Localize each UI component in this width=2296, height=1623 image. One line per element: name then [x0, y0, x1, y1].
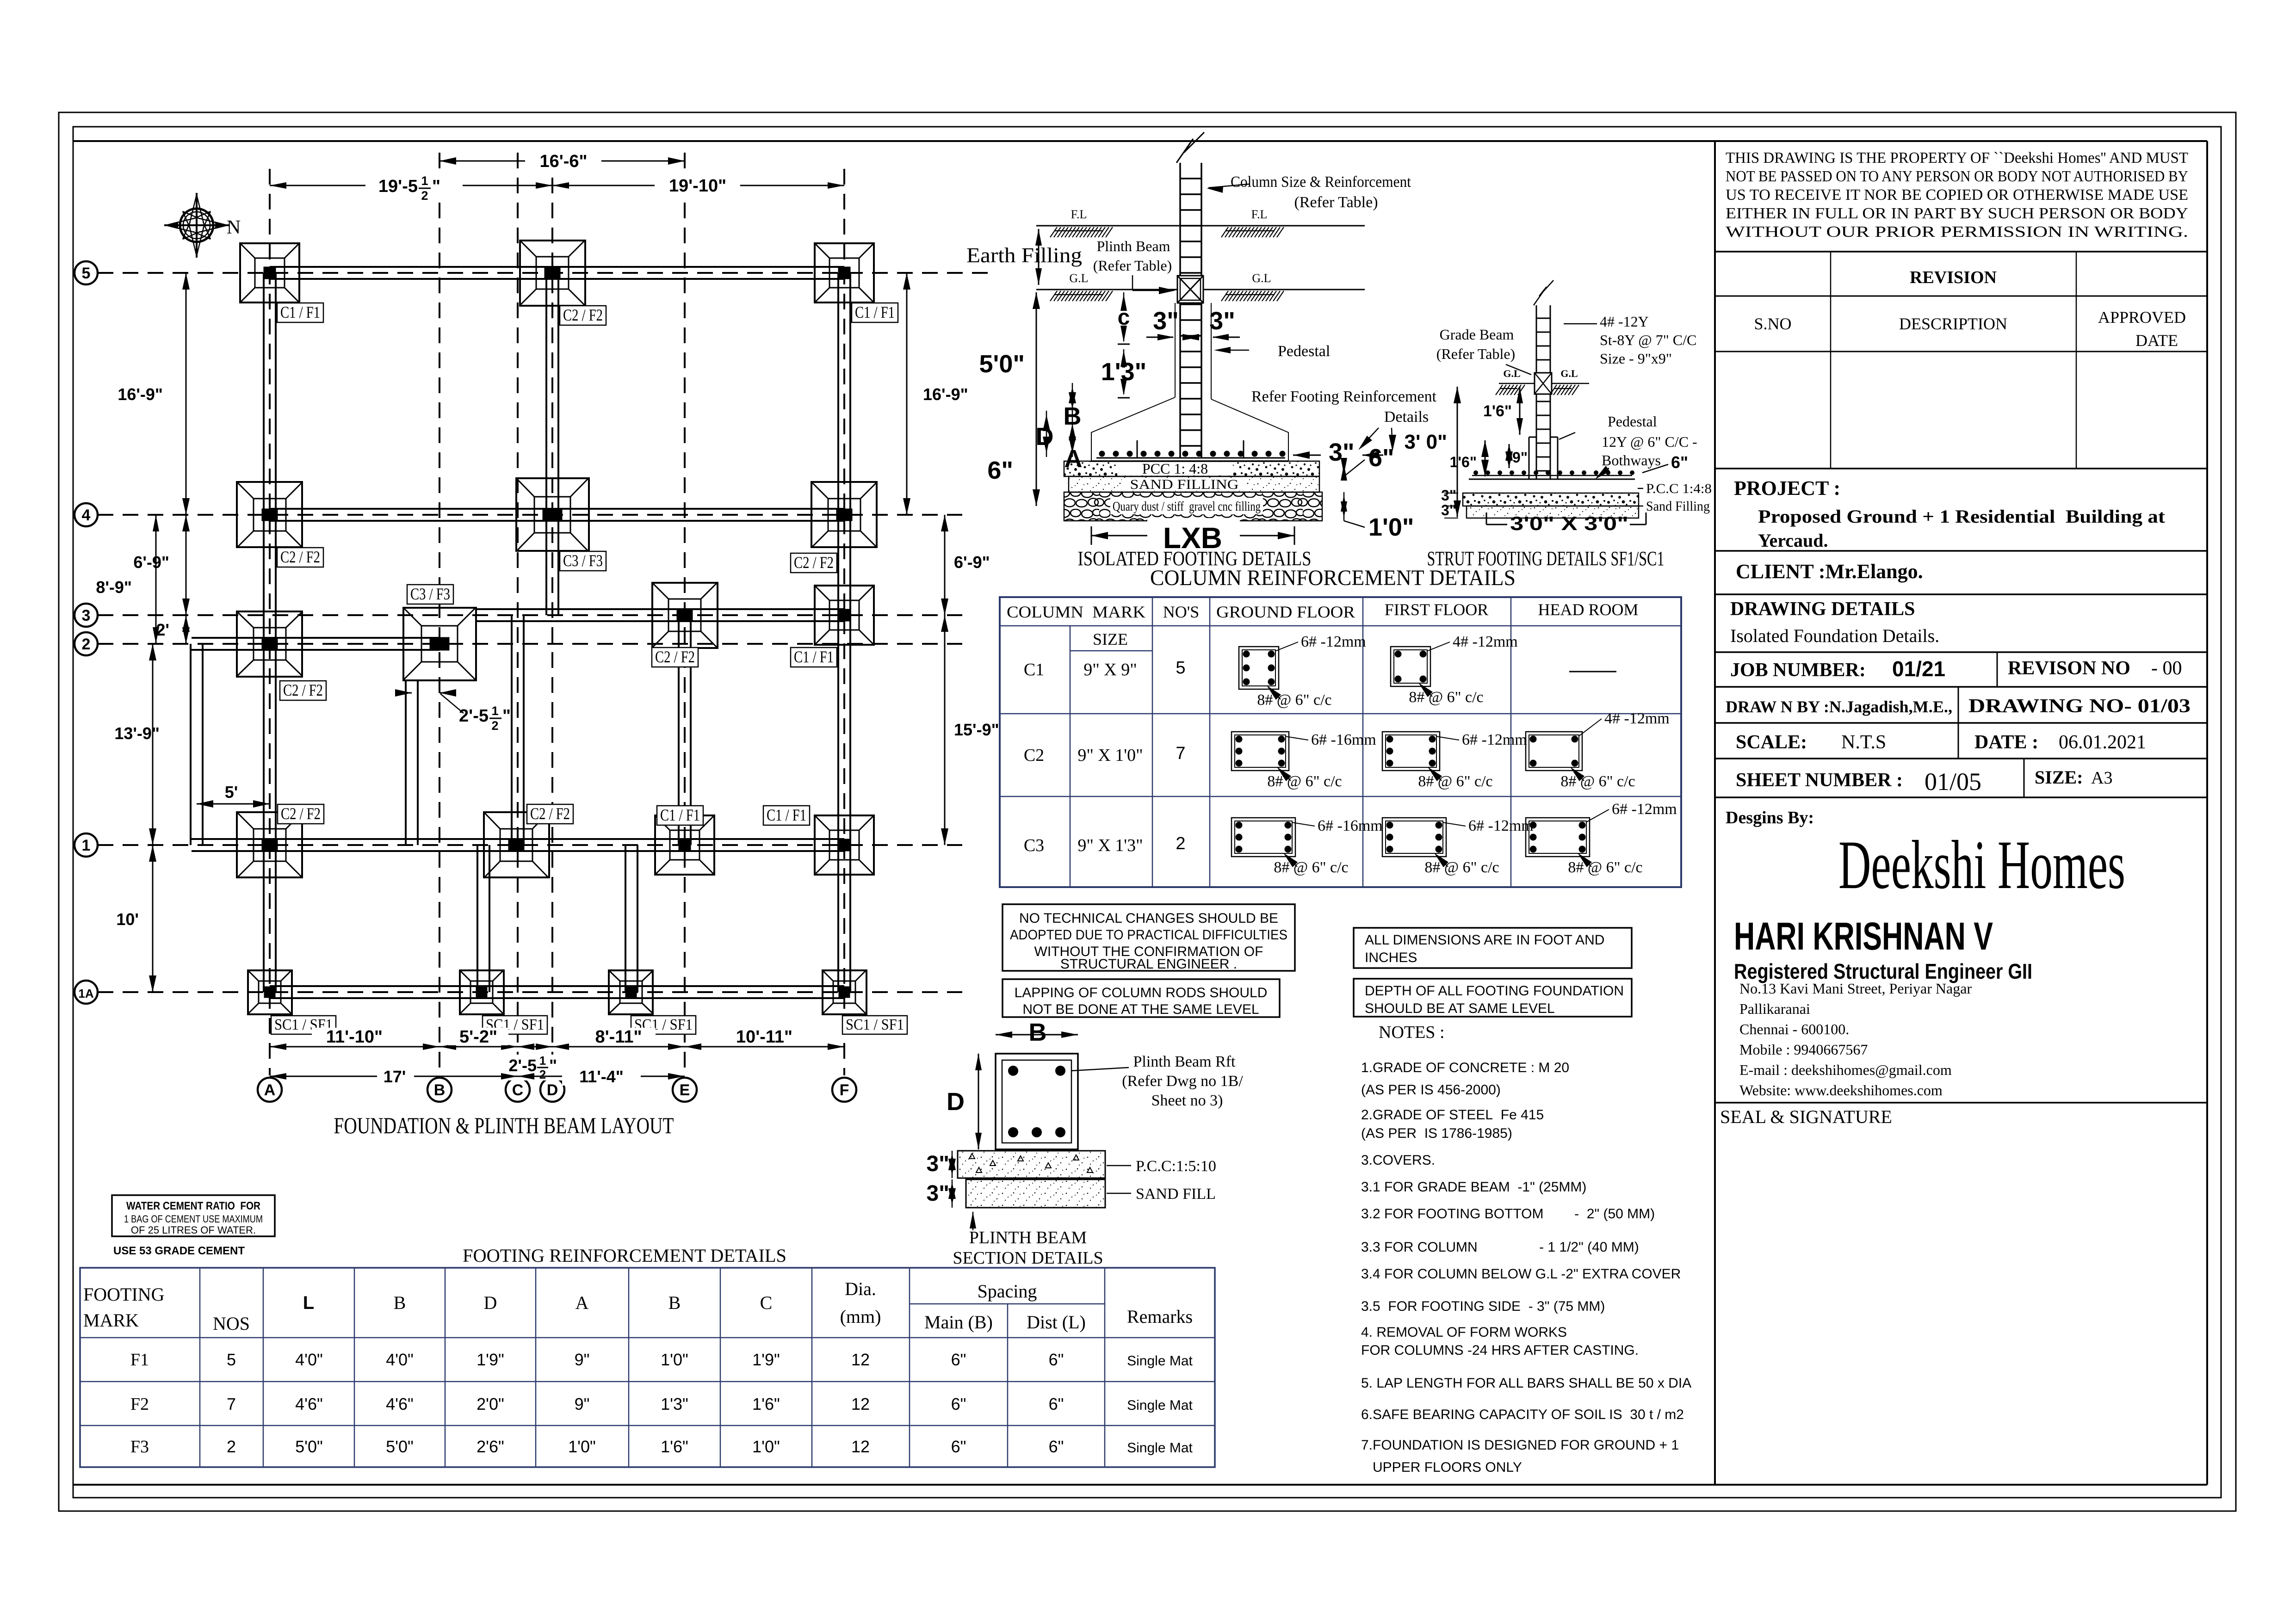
svg-text:Desgins By:: Desgins By: — [1726, 808, 1814, 827]
svg-text:11'-4": 11'-4" — [579, 1067, 624, 1086]
label C2 / F2 — [278, 804, 324, 824]
soil hatch below F.L left — [1050, 227, 1113, 237]
svg-text:19'-10": 19'-10" — [669, 176, 726, 196]
svg-text:SC1 / SF1: SC1 / SF1 — [846, 1016, 904, 1033]
svg-text:STRUT FOOTING DETAILS SF1/SC1: STRUT FOOTING DETAILS SF1/SC1 — [1427, 547, 1665, 570]
svg-text:Website: www.deekshihomes.com: Website: www.deekshihomes.com — [1739, 1082, 1943, 1098]
svg-text:1'0": 1'0" — [752, 1437, 780, 1456]
dim 2'-5 1/2" leader near B2 — [396, 692, 412, 694]
left dim 2' — [186, 615, 187, 644]
plinth beam section: beam rect — [996, 1054, 1078, 1149]
svg-text:UPPER FLOORS ONLY: UPPER FLOORS ONLY — [1361, 1460, 1522, 1475]
svg-text:4'0": 4'0" — [295, 1350, 323, 1369]
svg-text:OF 25 LITRES OF WATER.: OF 25 LITRES OF WATER. — [131, 1224, 256, 1236]
svg-text:6'-9": 6'-9" — [133, 553, 169, 572]
svg-text:REVISON NO: REVISON NO — [2008, 658, 2130, 679]
svg-text:3": 3" — [1209, 307, 1235, 335]
footing C2/F2 at A2 — [237, 611, 303, 677]
footing slab rebar mat — [1091, 460, 1288, 462]
svg-text:10'-11": 10'-11" — [736, 1027, 792, 1047]
svg-text:6'-9": 6'-9" — [954, 553, 990, 572]
LXB dimension — [1091, 535, 1294, 537]
svg-text:2: 2 — [227, 1437, 236, 1456]
svg-text:2'6": 2'6" — [477, 1437, 504, 1456]
svg-text:2: 2 — [491, 719, 498, 733]
grid line 3 (dashed) — [98, 614, 962, 616]
svg-text:DRAW N BY :N.Jagadish,M.E.,: DRAW N BY :N.Jagadish,M.E., — [1726, 697, 1952, 716]
svg-text:Pedestal: Pedestal — [1278, 343, 1330, 360]
soil hatch below G.L right — [1221, 291, 1284, 301]
svg-text:B: B — [434, 1081, 446, 1099]
grid bubble D — [540, 1078, 564, 1102]
svg-text:(Refer Table): (Refer Table) — [1436, 346, 1515, 362]
svg-text:6": 6" — [1049, 1437, 1064, 1456]
svg-text:Pedestal: Pedestal — [1608, 413, 1657, 430]
svg-text:A: A — [1064, 445, 1083, 473]
grid bubble 3 — [74, 604, 98, 627]
svg-text:12: 12 — [851, 1395, 870, 1413]
pedestal 3 inch offset dims — [1146, 337, 1173, 338]
svg-text:(AS PER IS 456-2000): (AS PER IS 456-2000) — [1361, 1082, 1501, 1098]
svg-text:8# @ 6" c/c: 8# @ 6" c/c — [1267, 773, 1342, 790]
strut bottom dim 3'0 x 3'0 — [1486, 524, 1507, 525]
svg-text:1'6": 1'6" — [661, 1437, 688, 1456]
plinth beam column D — [545, 273, 547, 615]
svg-text:6": 6" — [1671, 453, 1688, 472]
plinth beam along row 1 — [192, 838, 844, 840]
grid line B (dashed) — [439, 153, 440, 1075]
svg-text:SAND FILLING: SAND FILLING — [1130, 477, 1239, 492]
gravel filling layer — [1064, 492, 1322, 521]
svg-text:6# -12mm: 6# -12mm — [1612, 801, 1677, 818]
strut right 6" dim — [1642, 464, 1668, 473]
content frame right line — [2206, 141, 2208, 1485]
svg-text:SEAL & SIGNATURE: SEAL & SIGNATURE — [1720, 1106, 1892, 1127]
svg-text:USE 53 GRADE CEMENT: USE 53 GRADE CEMENT — [113, 1245, 245, 1257]
svg-text:Size - 9"x9": Size - 9"x9" — [1600, 350, 1672, 367]
svg-text:1.GRADE OF CONCRETE : M 20: 1.GRADE OF CONCRETE : M 20 — [1361, 1060, 1569, 1075]
label C1 / F1 — [657, 806, 703, 825]
svg-text:06.01.2021: 06.01.2021 — [2059, 732, 2146, 753]
label Plinth Beam Rft — [1071, 1068, 1129, 1071]
svg-text:3.COVERS.: 3.COVERS. — [1361, 1153, 1435, 1168]
strut X-box at G.L — [1535, 373, 1552, 394]
footing haunch slopes — [1091, 397, 1288, 461]
svg-text:1 BAG OF CEMENT USE MAXIMUM: 1 BAG OF CEMENT USE MAXIMUM — [124, 1213, 263, 1225]
right cover dim 3 inch — [1293, 455, 1321, 456]
svg-text:DESCRIPTION: DESCRIPTION — [1899, 315, 2007, 333]
notice box: lapping of column rods — [1003, 979, 1280, 1017]
svg-text:FOR COLUMNS -24 HRS AFTER CAST: FOR COLUMNS -24 HRS AFTER CASTING. — [1361, 1343, 1639, 1358]
svg-text:6# -12mm: 6# -12mm — [1301, 633, 1366, 650]
svg-text:7: 7 — [1176, 744, 1185, 763]
grid line 1 (dashed) — [98, 844, 962, 846]
grid bubble 5 — [74, 261, 98, 284]
svg-text:4# -12mm: 4# -12mm — [1453, 633, 1518, 650]
svg-text:C2 / F2: C2 / F2 — [794, 553, 834, 572]
svg-text:HARI KRISHNAN V: HARI KRISHNAN V — [1734, 914, 1993, 958]
svg-text:9" X 1'3": 9" X 1'3" — [1077, 836, 1143, 855]
svg-text:B: B — [1064, 402, 1082, 430]
grid line 2 (dashed) — [98, 643, 962, 645]
svg-text:NO'S: NO'S — [1163, 603, 1200, 621]
rebar section C3 ground floor — [1232, 818, 1295, 857]
svg-text:Mobile : 9940667567: Mobile : 9940667567 — [1739, 1041, 1868, 1058]
svg-text:8# @ 6" c/c: 8# @ 6" c/c — [1418, 773, 1492, 790]
footing C2/F2 at D5 — [520, 241, 585, 306]
svg-text:4'6": 4'6" — [295, 1395, 323, 1413]
svg-text:C2 / F2: C2 / F2 — [530, 804, 570, 823]
svg-text:F2: F2 — [130, 1395, 149, 1414]
svg-text:1'6": 1'6" — [1483, 402, 1512, 420]
svg-text:5: 5 — [82, 265, 91, 282]
right dim 1'0" — [1343, 492, 1345, 521]
svg-text:6# -16mm: 6# -16mm — [1318, 817, 1383, 834]
svg-text:SHOULD BE AT SAME LEVEL: SHOULD BE AT SAME LEVEL — [1365, 1001, 1555, 1016]
rebar section C3 head room — [1526, 818, 1590, 857]
svg-text:St-8Y @ 7" C/C: St-8Y @ 7" C/C — [1600, 332, 1696, 348]
svg-text:C: C — [512, 1081, 524, 1099]
svg-text:C1 / F1: C1 / F1 — [767, 806, 806, 824]
right dim 6" — [1343, 461, 1345, 476]
svg-text:SCALE:: SCALE: — [1736, 732, 1807, 753]
grid bubble 1A — [74, 981, 98, 1004]
svg-text:8'-11": 8'-11" — [595, 1027, 642, 1047]
svg-text:01/21: 01/21 — [1892, 657, 1945, 681]
grid bubble B — [427, 1078, 452, 1102]
svg-text:16'-9": 16'-9" — [118, 385, 163, 404]
footing SC1/SF1 at A1A — [248, 970, 292, 1014]
svg-text:WATER CEMENT RATIO FOR: WATER CEMENT RATIO FOR — [126, 1200, 260, 1212]
svg-text:Quary dust / stiff gravel cnc: Quary dust / stiff gravel cnc filling — [1113, 500, 1261, 514]
svg-text:C3: C3 — [1024, 836, 1044, 855]
svg-text:Sand Filling: Sand Filling — [1646, 499, 1710, 514]
plinth beam column C — [511, 615, 513, 845]
svg-text:HEAD ROOM: HEAD ROOM — [1538, 600, 1638, 619]
leader: Column Size & Reinforcement — [1208, 184, 1249, 188]
bottom dim 5'-2" — [439, 1046, 518, 1048]
svg-text:2: 2 — [421, 189, 428, 203]
strut PCC / Sand labels — [1638, 488, 1643, 489]
svg-text:APPROVED: APPROVED — [2098, 308, 2186, 327]
label SC1 / SF1 — [483, 1016, 547, 1034]
svg-text:B: B — [1029, 1018, 1047, 1046]
leader grade beam — [1506, 364, 1531, 375]
soil hatch below F.L right — [1221, 227, 1284, 237]
svg-text:C1 / F1: C1 / F1 — [280, 303, 320, 321]
svg-text:Pallikaranai: Pallikaranai — [1739, 1000, 1810, 1017]
grid bubble 1 — [74, 833, 98, 857]
svg-text:COLUMN MARK: COLUMN MARK — [1007, 603, 1145, 621]
svg-text:D: D — [547, 1081, 558, 1099]
label C2 / F2 — [652, 648, 698, 667]
footing reinforcement table frame — [80, 1268, 1215, 1467]
strut dim 3'0" — [1457, 387, 1458, 517]
content frame top line — [73, 140, 2207, 142]
svg-text:DATE: DATE — [2135, 331, 2178, 350]
pedestal outline — [1175, 303, 1211, 399]
svg-text:(mm): (mm) — [840, 1306, 881, 1327]
svg-text:6": 6" — [951, 1437, 966, 1456]
svg-text:Column Size & Reinforcement: Column Size & Reinforcement — [1231, 173, 1411, 191]
strut pedestal outline — [1529, 437, 1558, 479]
isolated footing: column break symbol — [1176, 132, 1204, 163]
label SC1 / SF1 — [631, 1016, 696, 1034]
plinth beam along row 4 — [270, 508, 844, 510]
svg-text:C2 / F2: C2 / F2 — [563, 306, 603, 324]
grid line 5 (dashed) — [98, 272, 990, 274]
svg-text:13'-9": 13'-9" — [114, 724, 160, 743]
svg-text:1'6": 1'6" — [752, 1395, 780, 1413]
svg-text:C2 / F2: C2 / F2 — [281, 804, 321, 823]
rebar section C2 head room — [1526, 732, 1582, 771]
plinth beam section: D dim — [978, 1054, 979, 1149]
label SAND FILL — [1107, 1193, 1131, 1194]
svg-text:8'-9": 8'-9" — [96, 578, 132, 597]
svg-text:C1 / F1: C1 / F1 — [660, 806, 700, 824]
svg-text:7.FOUNDATION IS DESIGNED FOR G: 7.FOUNDATION IS DESIGNED FOR GROUND + 1 — [1361, 1438, 1679, 1453]
svg-text:Single Mat: Single Mat — [1127, 1353, 1193, 1369]
svg-text:C2: C2 — [1024, 746, 1044, 765]
svg-text:16'-9": 16'-9" — [923, 385, 968, 404]
strut G.L line — [1499, 383, 1536, 384]
svg-text:Single Mat: Single Mat — [1127, 1440, 1193, 1456]
svg-text:Details: Details — [1384, 408, 1429, 426]
svg-text:5: 5 — [1176, 658, 1185, 678]
svg-text:2': 2' — [156, 620, 169, 639]
bottom dim 17' — [270, 1076, 518, 1077]
svg-text:Grade Beam: Grade Beam — [1440, 326, 1514, 343]
right dim 6'-9" — [944, 515, 946, 615]
svg-text:1'0": 1'0" — [661, 1350, 688, 1369]
svg-text:5. LAP LENGTH FOR ALL BARS SHA: 5. LAP LENGTH FOR ALL BARS SHALL BE 50 x… — [1361, 1376, 1691, 1391]
plinth beam section: B dim — [996, 1034, 1078, 1036]
svg-text:7: 7 — [227, 1395, 236, 1413]
svg-text:1'3": 1'3" — [661, 1395, 688, 1413]
earth filling depth dim — [1038, 229, 1040, 285]
svg-text:Remarks: Remarks — [1127, 1306, 1193, 1327]
footing C2/F2 at A4 — [237, 482, 303, 548]
svg-text:19'-5: 19'-5 — [378, 177, 418, 196]
svg-text:3": 3" — [927, 1181, 949, 1206]
svg-text:Chennai - 600100.: Chennai - 600100. — [1739, 1021, 1849, 1037]
svg-text:2: 2 — [82, 636, 91, 653]
svg-text:Yercaud.: Yercaud. — [1758, 530, 1828, 551]
svg-text:F: F — [840, 1081, 849, 1099]
grid line 1A (dashed) — [98, 991, 962, 993]
bottom dim 10'-11" — [685, 1046, 844, 1048]
svg-text:16'-6": 16'-6" — [539, 152, 587, 171]
svg-text:1: 1 — [421, 174, 428, 188]
strut soil hatch right — [1550, 385, 1579, 395]
plinth beam strut beam 1 — [477, 845, 478, 992]
svg-text:": " — [432, 177, 440, 196]
svg-text:5'0": 5'0" — [386, 1437, 414, 1456]
isolated footing: column ladder — [1180, 163, 1201, 458]
svg-text:5'0": 5'0" — [979, 350, 1025, 378]
svg-text:1'0": 1'0" — [1368, 513, 1414, 541]
svg-text:6": 6" — [1049, 1395, 1064, 1413]
svg-text:DEPTH OF ALL FOOTING FOUNDATIO: DEPTH OF ALL FOOTING FOUNDATION — [1365, 983, 1624, 999]
svg-text:JOB NUMBER:: JOB NUMBER: — [1730, 660, 1866, 681]
footing C2/F2 at C1 — [484, 812, 549, 878]
svg-text:12: 12 — [851, 1437, 870, 1456]
svg-text:DRAWING DETAILS: DRAWING DETAILS — [1730, 599, 1915, 620]
strut sand layer — [1467, 506, 1639, 518]
G.L line — [1036, 289, 1177, 290]
label C1 / F1 — [763, 806, 810, 825]
svg-text:Plinth Beam Rft: Plinth Beam Rft — [1133, 1053, 1236, 1070]
grid bubble F — [832, 1078, 856, 1102]
svg-text:": " — [502, 706, 511, 726]
strut footing: break symbol — [1534, 280, 1553, 305]
water cement ratio box — [112, 1195, 275, 1236]
plinth beam column F — [837, 273, 839, 992]
svg-text:SIZE: SIZE — [1093, 630, 1128, 648]
rebar section C2 ground floor — [1232, 732, 1289, 771]
svg-text:11'-10": 11'-10" — [326, 1027, 383, 1047]
svg-text:5: 5 — [227, 1350, 236, 1369]
svg-text:SAND FILL: SAND FILL — [1136, 1185, 1216, 1203]
label C2 / F2 — [280, 681, 326, 700]
footing C1/F1 at A5 — [240, 243, 299, 302]
revision table — [1715, 251, 2207, 253]
svg-text:9": 9" — [1512, 449, 1528, 466]
svg-text:6# -12mm: 6# -12mm — [1468, 817, 1534, 834]
svg-text:Isolated Foundation Details.: Isolated Foundation Details. — [1730, 625, 1939, 646]
svg-text:3": 3" — [1441, 502, 1456, 518]
svg-text:Earth Filling: Earth Filling — [966, 243, 1082, 267]
grid line A (dashed) — [269, 169, 271, 1075]
svg-text:3: 3 — [82, 607, 91, 624]
label C2 / F2 — [791, 553, 837, 573]
svg-text:4'6": 4'6" — [386, 1395, 414, 1413]
grid bubble A — [258, 1078, 282, 1102]
svg-text:NOT BE DONE AT THE SAME LEVEL: NOT BE DONE AT THE SAME LEVEL — [1022, 1002, 1259, 1017]
svg-text:6# -16mm: 6# -16mm — [1311, 731, 1376, 748]
svg-text:3.5 FOR FOOTING SIDE - 3" (7: 3.5 FOR FOOTING SIDE - 3" (75 MM) — [1361, 1299, 1605, 1314]
strut PCC layer — [1463, 493, 1639, 506]
svg-text:2'0": 2'0" — [477, 1395, 504, 1413]
dim 5' (offset beam to A) — [197, 803, 270, 805]
svg-text:NOT BE PASSED ON TO ANY PERSON: NOT BE PASSED ON TO ANY PERSON OR BODY N… — [1726, 168, 2188, 185]
label C2 / F2 — [277, 548, 323, 567]
svg-text:3.2 FOR FOOTING BOTTOM: 3.2 FOR FOOTING BOTTOM - 2" (50 MM) — [1361, 1206, 1655, 1222]
svg-text:GROUND FLOOR: GROUND FLOOR — [1216, 603, 1355, 621]
svg-text:N: N — [227, 217, 241, 238]
grid line C (dashed) — [517, 153, 519, 1075]
svg-text:6# -12mm: 6# -12mm — [1462, 731, 1527, 748]
svg-text:C3 / F3: C3 / F3 — [563, 551, 603, 570]
svg-text:- 00: - 00 — [2151, 658, 2182, 679]
svg-text:2'-5: 2'-5 — [459, 706, 489, 726]
content frame bottom line — [73, 1484, 2207, 1486]
svg-text:8# @ 6" c/c: 8# @ 6" c/c — [1257, 691, 1331, 709]
svg-text:6.SAFE BEARING CAPACITY OF SOI: 6.SAFE BEARING CAPACITY OF SOIL IS 30 t … — [1361, 1407, 1684, 1422]
svg-text:1: 1 — [491, 704, 498, 718]
svg-text:1: 1 — [539, 1054, 546, 1068]
left dim 10' — [152, 845, 154, 992]
svg-text:1: 1 — [82, 837, 91, 854]
grid bubble 2 — [74, 632, 98, 655]
svg-text:3": 3" — [1441, 487, 1456, 504]
left dim 6'-9" — [186, 515, 187, 615]
svg-text:4: 4 — [82, 506, 91, 524]
svg-text:MARK: MARK — [83, 1310, 139, 1331]
svg-text:9": 9" — [575, 1350, 590, 1369]
svg-text:1'0": 1'0" — [568, 1437, 596, 1456]
right dim 15'-9" — [944, 615, 946, 845]
grid bubble C — [506, 1078, 530, 1102]
svg-text:SHEET NUMBER :: SHEET NUMBER : — [1736, 770, 1903, 791]
svg-text:DRAWING NO- 01/03: DRAWING NO- 01/03 — [1968, 696, 2191, 717]
svg-text:A: A — [576, 1292, 589, 1313]
svg-text:E-mail : deekshihomes@gmail.co: E-mail : deekshihomes@gmail.com — [1739, 1061, 1952, 1078]
svg-text:THIS DRAWING IS THE PROPERTY O: THIS DRAWING IS THE PROPERTY OF ``Deeksh… — [1726, 149, 2188, 167]
svg-text:9" X 1'0": 9" X 1'0" — [1077, 746, 1143, 765]
svg-text:G.L: G.L — [1560, 368, 1578, 379]
svg-text:1'6": 1'6" — [1450, 454, 1477, 470]
svg-text:SIZE:: SIZE: — [2035, 767, 2083, 788]
footing C3/F3 at D4 — [516, 478, 589, 551]
svg-text:B: B — [668, 1292, 681, 1313]
soil hatch below G.L left — [1050, 291, 1113, 301]
strut soil hatch left — [1496, 385, 1525, 395]
bottom dim 8'-11" — [552, 1046, 685, 1048]
svg-text:Proposed Ground + 1 Residentia: Proposed Ground + 1 Residential Building… — [1758, 506, 2166, 527]
svg-text:3.1 FOR GRADE BEAM -1" (25MM): 3.1 FOR GRADE BEAM -1" (25MM) — [1361, 1179, 1586, 1195]
svg-text:Spacing: Spacing — [978, 1281, 1037, 1302]
strut footing: column ladder — [1536, 305, 1550, 479]
bottom dim 11'-10" — [270, 1046, 439, 1048]
svg-text:FOUNDATION & PLINTH BEAM LAYOU: FOUNDATION & PLINTH BEAM LAYOUT — [334, 1112, 674, 1138]
plinth beam section: rebar dots — [1008, 1066, 1065, 1137]
label C3 / F3 — [560, 551, 606, 571]
footing SC1/SF1 at F1A — [823, 970, 866, 1014]
svg-text:6": 6" — [951, 1395, 966, 1413]
svg-text:C1 / F1: C1 / F1 — [794, 648, 834, 666]
svg-text:C2 / F2: C2 / F2 — [283, 681, 323, 699]
svg-text:(Refer Table): (Refer Table) — [1294, 194, 1378, 211]
svg-text:1A: 1A — [78, 987, 93, 1000]
sand filling layer — [1069, 476, 1319, 492]
grid line E (dashed) — [684, 153, 686, 1075]
rebar section C3 first floor — [1382, 818, 1446, 857]
svg-text:Dist (L): Dist (L) — [1027, 1312, 1086, 1333]
footing C1/F1 at F5 — [815, 243, 874, 302]
footing C1/F1 at F3 — [815, 586, 874, 645]
svg-text:(Refer Dwg no 1B/: (Refer Dwg no 1B/ — [1122, 1073, 1243, 1090]
svg-text:P.C.C:1:5:10: P.C.C:1:5:10 — [1136, 1158, 1216, 1175]
svg-text:F.L: F.L — [1251, 208, 1268, 221]
svg-text:S.NO: S.NO — [1754, 315, 1791, 333]
svg-text:3'0" X 3'0": 3'0" X 3'0" — [1510, 512, 1628, 534]
svg-text:8# @ 6" c/c: 8# @ 6" c/c — [1274, 859, 1348, 876]
plinth beam X-box at G.L — [1177, 276, 1203, 303]
footing C2/F2 at E3 — [652, 583, 718, 648]
svg-text:ADOPTED DUE TO PRACTICAL DIFFI: ADOPTED DUE TO PRACTICAL DIFFICULTIES — [1010, 927, 1287, 943]
svg-text:LAPPING OF COLUMN RODS SHOULD: LAPPING OF COLUMN RODS SHOULD — [1015, 985, 1268, 1000]
north compass symbol — [164, 193, 229, 258]
plinth beam section: PCC layer — [958, 1151, 1105, 1178]
plinth beam below C3 footing — [405, 679, 407, 845]
svg-text:Single Mat: Single Mat — [1127, 1398, 1193, 1413]
svg-text:F1: F1 — [130, 1350, 149, 1370]
left dim 16'-9" — [186, 273, 187, 515]
svg-text:8# @ 6" c/c: 8# @ 6" c/c — [1568, 859, 1642, 876]
strut dim 1'6" lower — [1485, 440, 1486, 476]
strut dim 1'6" upper — [1519, 387, 1521, 435]
